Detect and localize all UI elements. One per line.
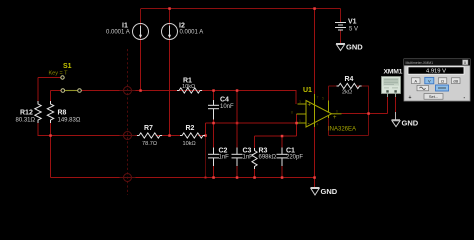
op-amp pin number marks [291,96,338,127]
junction dot R3 bottom [253,176,256,179]
battery V1 [335,23,346,31]
svg-text:10nF: 10nF [220,104,234,110]
pin mid gain [297,113,307,115]
capacitor C2 [208,148,219,167]
ground GND V1 [336,44,345,51]
pin minus input [298,122,307,124]
wire I1 drop x=141 bottom to node row y=90.5 [140,40,142,92]
wire between R7 and R2 [156,135,183,137]
svg-text:Set...: Set... [429,94,438,99]
svg-text:220pF: 220pF [286,155,303,161]
junction dot x=237 y=123 crossing [236,122,239,125]
wire R4 left lead and drop to op-amp top pin [329,85,339,87]
svg-text:0.0001 A: 0.0001 A [106,30,130,36]
switch S1 lever [65,90,78,92]
resistor R7 [137,133,162,138]
svg-text:Ω: Ω [441,78,444,83]
wire node row y=90.5 from switch to op-amp plus input [81,90,296,92]
junction dot minus input node [295,122,298,125]
wire op-amp output row y=113.5 [342,113,388,115]
svg-text:+: + [409,95,412,101]
svg-text:2kΩ: 2kΩ [342,90,352,96]
svg-text:698kΩ: 698kΩ [259,155,277,161]
svg-text:C4: C4 [220,97,229,104]
wire R3 top lead [254,136,256,151]
wire C1 bottom lead [281,165,283,178]
junction dot rail end at GND [313,176,316,179]
wire R8 top lead: switch left pole to R8 [51,90,62,92]
wire C3 bottom lead red to rail [236,165,238,178]
capacitor C4 [208,100,219,120]
pin plus input [298,103,307,105]
junction dot output node [367,112,370,115]
wire C3 line x=237 from y=90.5 junction down [236,91,238,149]
net highlight circle at y=90.5 [120,87,136,95]
svg-text:1nF: 1nF [219,155,230,161]
svg-text:149.83Ω: 149.83Ω [58,118,81,124]
resistor R8 [47,101,53,123]
svg-text:0.0001 A: 0.0001 A [180,30,204,36]
junction dot C3 top at y=90.5 [236,89,239,92]
buttons row 1: A V ohm dB [412,78,421,84]
svg-text:3: 3 [299,100,301,104]
wire bottom rail y=177 [51,177,315,179]
svg-text:R3: R3 [259,148,268,155]
svg-text:6: 6 [336,110,338,114]
wire x=205.9 from y=123 down to bottom rail [205,123,207,136]
wire C4 top lead red [213,91,215,101]
svg-text:8: 8 [291,111,293,115]
XMM1 minus wire lower gray stub [395,112,397,120]
wire I2 drop x=169.5 top [169,9,171,26]
current source I2 [162,24,178,40]
svg-text:10kΩ: 10kΩ [183,141,196,147]
svg-text:GND: GND [346,43,363,52]
svg-text:A: A [414,78,417,83]
junction dot C4/C2 at y=123 [212,122,215,125]
pin output [332,113,342,115]
wire R12 top lead: switch upper throw to R12 [38,77,61,79]
svg-text:5 V: 5 V [349,27,358,33]
svg-text:C2: C2 [219,148,228,155]
svg-text:GND: GND [402,119,419,128]
svg-text:XMM1: XMM1 [384,69,403,76]
wire minus-input row y=123 from R2 corner to op-amp [206,122,297,124]
svg-text:80.31Ω: 80.31Ω [16,118,36,124]
op-amp U1 INA326EA [297,94,342,127]
svg-text:V1: V1 [348,19,357,26]
svg-text:I1: I1 [122,23,128,30]
junction dot R2-rail [205,177,207,179]
wire minus node vertical x=296.5 from mid pin through minus input down to y=136 [296,114,298,136]
pin V+ top [314,94,316,127]
junction dot Vplus top rail [313,7,316,10]
svg-text:INA326EA: INA326EA [328,126,356,132]
resistor R12 [35,101,41,123]
svg-text:GND: GND [321,187,338,196]
wire gain row y=136 right segment R3 to op-amp minus node [255,135,297,137]
svg-text:R4: R4 [345,76,354,83]
capacitor C3 [232,148,243,167]
wire R2 right lead to corner x=205.9 [198,135,206,137]
svg-text:Multimeter-XMM1: Multimeter-XMM1 [406,61,434,65]
wire R3 bottom lead [254,166,256,178]
wire XMM1 minus terminal drop to GND [395,96,397,113]
pin FB bottom [328,116,330,119]
set button [424,94,443,100]
svg-text:R8: R8 [58,110,67,117]
wire C4 bottom to junction y=123 [213,119,215,123]
wire op-amp plus input drop x=296 [295,91,297,105]
svg-text:+: + [333,115,337,121]
wire Vplus rail drop x=314.5 from top rail to op-amp [314,9,316,95]
wire R4 right lead and drop to output node [356,85,369,87]
junction dot I1 at y=90.5 [139,89,142,92]
wire XMM1 plus terminal drop x=387.5 [387,96,389,114]
junction dot C1 top at y=136 [281,135,284,138]
svg-text:78.7Ω: 78.7Ω [142,141,157,147]
wire I2 drop x=169.5 bottom to y=136 [169,40,171,137]
resistor R1 [177,88,202,93]
resistor R2 [180,133,205,138]
svg-text:C3: C3 [243,148,252,155]
XMM1 terminal stubs [387,94,389,98]
pin top gain near apex [328,101,330,113]
svg-text:R12: R12 [20,110,33,117]
junction dot R8 bottom [49,134,52,137]
wire R8 bottom lead [50,121,52,136]
junction dot C4 top at y=90.5 [212,89,215,92]
net highlight dashed line x=127.5 [127,49,129,195]
svg-text:V: V [428,78,431,83]
wire C2 bottom lead red to rail [213,165,215,178]
svg-text:Key = T: Key = T [49,70,69,76]
svg-text:R2: R2 [186,125,195,132]
svg-text:dB: dB [453,78,458,83]
wire feedback loop: output node down, left, up to op-amp FB pin [368,114,370,136]
net highlight circle at y=135.5 [120,132,136,140]
wire I1 drop x=141 top [140,9,142,26]
capacitor C1 [277,148,288,167]
svg-text:R7: R7 [144,125,153,132]
wire R12 bottom lead [37,121,39,136]
svg-text:I2: I2 [179,23,185,30]
multimeter window panel [404,59,470,101]
resistor R4 [337,83,362,88]
svg-text:4: 4 [317,123,319,127]
svg-text:5: 5 [322,97,324,101]
svg-text:S1: S1 [63,63,72,70]
svg-text:U1: U1 [303,87,312,94]
svg-text:10kΩ: 10kΩ [182,84,195,90]
buttons row 2: AC / DC [417,85,429,90]
ground GND bottom rail [311,188,320,196]
junction dot C2 bottom [212,176,215,179]
wire row y=135.5 R12/R8 bottoms to R7 [38,135,140,137]
svg-text:+: + [308,103,312,109]
wire V-minus drop from op-amp bottom to bottom rail end [314,127,316,188]
wire C2 top lead red from y=123 [213,123,215,148]
display [408,67,464,74]
svg-text:C1: C1 [286,148,295,155]
junction dot I2 top rail [168,7,171,10]
wire R8 junction down to bottom rail corner [50,136,52,178]
junction dot C1 bottom [281,176,284,179]
current source I1 [133,24,149,40]
svg-text:-: - [308,121,310,127]
junction dot I2 at y=135.5 [168,134,171,137]
net highlight circle at y=177.5 [120,174,136,182]
wire V1 bottom to GND [340,31,342,44]
svg-text:7: 7 [317,96,319,100]
svg-text:4.919 V: 4.919 V [426,69,446,75]
ground GND XMM1 [392,120,401,127]
junction dot C3 bottom [236,176,239,179]
junction dot R2 right at y=135.5 [204,134,207,137]
wire V1 top drop x=340 [340,9,342,23]
resistor R3 [252,148,257,169]
wire C1 top lead [281,136,283,148]
wire top rail y=8.5 from I1 to V1 [141,8,341,10]
svg-text:1: 1 [299,119,301,123]
